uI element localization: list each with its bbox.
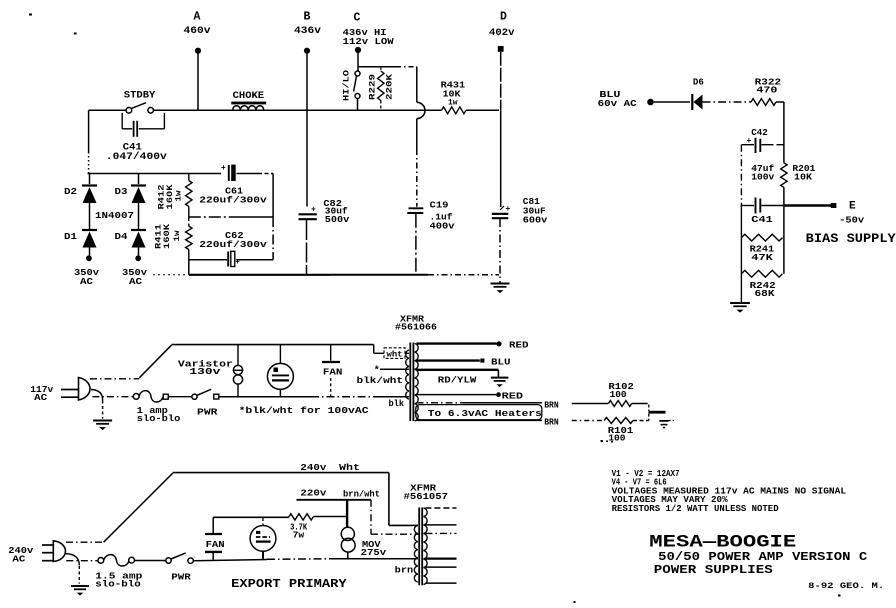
svg-text:AC: AC — [80, 277, 94, 287]
svg-text:68K: 68K — [755, 289, 776, 299]
240 top rail — [173, 472, 389, 474]
wire plug hot dash — [90, 378, 139, 380]
svg-text:402v: 402v — [489, 28, 515, 39]
wire middle cap line — [189, 216, 232, 218]
tap RD/YLW to ground — [417, 369, 499, 371]
svg-text:460v: 460v — [184, 26, 211, 37]
svg-text:10K: 10K — [794, 172, 813, 182]
bias right rail — [783, 102, 785, 163]
svg-text:wht: wht — [387, 350, 403, 360]
svg-text:FAN: FAN — [206, 539, 225, 550]
wire node A to rail — [197, 54, 199, 111]
svg-text:EXPORT PRIMARY: EXPORT PRIMARY — [231, 577, 347, 591]
svg-text:BLU: BLU — [491, 357, 511, 368]
capacitor C19 .1uf 400v — [409, 207, 424, 209]
svg-text:112v LOW: 112v LOW — [343, 37, 395, 47]
svg-text:D3: D3 — [115, 187, 128, 197]
switch PWR 240v — [135, 560, 166, 562]
line filter capacitor 240 (can) — [262, 518, 264, 526]
node D (square) — [498, 46, 504, 52]
wire to D6 — [654, 101, 690, 103]
svg-text:600v: 600v — [523, 216, 548, 226]
wire plug ground hook 240 — [65, 554, 79, 566]
tap BRN lower — [417, 419, 542, 421]
svg-text:160K: 160K — [162, 223, 172, 249]
node E (square) — [831, 203, 837, 208]
svg-text:RESISTORS 1/2 WATT UNLESS NOTE: RESISTORS 1/2 WATT UNLESS NOTED — [612, 504, 780, 514]
svg-text:1w: 1w — [173, 230, 182, 241]
switch PWR 117v — [168, 396, 192, 398]
scan specks — [29, 14, 32, 16]
wire BRN lower to R101 — [572, 420, 604, 422]
fan 240v — [212, 517, 214, 533]
wire BRN upper to R102 — [572, 403, 609, 405]
wire R322 to rail — [776, 101, 784, 103]
ground bias — [730, 302, 750, 304]
svg-text:D: D — [500, 11, 507, 24]
svg-text:1N4007: 1N4007 — [95, 211, 134, 221]
svg-text:BRN: BRN — [544, 400, 559, 410]
capacitor C82 30uf 500v — [299, 213, 317, 215]
resistor R411 160K 1w — [188, 217, 190, 226]
wire right cap rail — [272, 174, 274, 218]
svg-text:FAN: FAN — [323, 367, 343, 378]
resistor R412 160K 1w — [188, 174, 190, 181]
ground node D — [491, 283, 510, 285]
svg-text:100: 100 — [610, 390, 627, 400]
bottom ground rail — [153, 274, 187, 276]
wire plug neutral dash 240 — [66, 560, 98, 562]
plug 240v — [42, 544, 53, 546]
svg-text:MESA—BOOGIE: MESA—BOOGIE — [649, 532, 796, 552]
tap BRN upper — [417, 402, 463, 404]
svg-text:PWR: PWR — [171, 572, 191, 583]
heater CT bar — [649, 411, 666, 414]
middle top rail — [171, 344, 373, 346]
T2 secondary taps — [425, 507, 456, 509]
wire corner to wht tap — [388, 473, 390, 526]
resistor R101 100 — [604, 418, 633, 424]
svg-text:D1: D1 — [64, 232, 78, 242]
wire node D down — [500, 52, 502, 111]
svg-text:47K: 47K — [751, 253, 773, 263]
svg-text:C42: C42 — [751, 128, 768, 138]
fan 117v — [330, 345, 332, 361]
svg-text:C19: C19 — [430, 201, 449, 211]
svg-text:R229: R229 — [368, 74, 378, 100]
wire hop over rail at C19 column — [416, 67, 418, 103]
svg-text:.047/400v: .047/400v — [106, 151, 167, 163]
capacitor C81 30uF 600v — [492, 213, 509, 215]
resistor R201 10K — [781, 163, 787, 188]
resistor R241 47K — [741, 234, 782, 241]
svg-text:500v: 500v — [325, 215, 350, 225]
svg-text:220uf/300v: 220uf/300v — [199, 195, 267, 205]
wire wht tap — [373, 345, 375, 354]
resistor R229 220K — [380, 67, 382, 71]
wire plug hot dash 240 — [66, 541, 104, 543]
wire node C to switch — [357, 53, 359, 71]
resistor R242 68K — [741, 270, 782, 277]
ground 240v plug — [71, 585, 89, 587]
svg-text:C: C — [354, 12, 361, 25]
svg-text:C41: C41 — [751, 215, 773, 225]
node B — [304, 48, 310, 54]
svg-text:slo-blo: slo-blo — [95, 580, 141, 590]
svg-text:-50v: -50v — [839, 214, 864, 225]
svg-text:RED: RED — [509, 339, 529, 350]
svg-text:220uf/300v: 220uf/300v — [199, 240, 267, 250]
svg-text:A: A — [194, 11, 201, 24]
wire R411 to bottom rail — [188, 260, 190, 275]
wire plug ground hook — [91, 390, 103, 401]
svg-text:+: + — [506, 205, 511, 214]
wire diagonal 240 — [104, 473, 173, 542]
svg-text:BIAS SUPPLY: BIAS SUPPLY — [806, 232, 896, 246]
svg-text:HI/LO: HI/LO — [342, 70, 352, 101]
svg-text:AC: AC — [34, 393, 48, 403]
svg-text:436v: 436v — [294, 26, 321, 37]
svg-text:400v: 400v — [430, 222, 456, 232]
wire C branch to R229 and C19 column — [359, 66, 397, 68]
svg-text:1w: 1w — [448, 98, 458, 108]
ground 117v plug — [93, 420, 112, 422]
svg-text:blk/wht: blk/wht — [357, 376, 404, 386]
T2 core — [418, 508, 420, 586]
main B+ rail — [89, 109, 127, 111]
wire plug neutral dash — [92, 396, 133, 398]
svg-text:220K: 220K — [385, 73, 395, 100]
svg-text:130v: 130v — [189, 367, 221, 377]
svg-text:240v: 240v — [300, 462, 326, 473]
T1 secondary winding — [415, 344, 418, 421]
wire switch to rail — [357, 99, 359, 111]
resistor 3.7K 7w — [289, 514, 313, 520]
MOV 275v — [346, 500, 348, 527]
bottom wire 240 — [193, 560, 267, 561]
svg-text:7w: 7w — [293, 531, 305, 541]
svg-text:brn: brn — [395, 566, 414, 576]
svg-text:100v: 100v — [751, 172, 775, 182]
svg-text:RED: RED — [502, 390, 524, 401]
wire E output — [784, 204, 831, 206]
capacitor C41 standby bypass — [121, 113, 123, 129]
svg-text:220v: 220v — [300, 488, 326, 499]
wire diagonal to top rail — [139, 345, 171, 378]
wire PWR to transformer — [219, 396, 311, 398]
svg-text:*blk/wht for 100vAC: *blk/wht for 100vAC — [239, 406, 370, 416]
plug 117v — [61, 389, 79, 391]
tap RED plate — [417, 342, 497, 344]
220v tap wire — [297, 499, 372, 501]
svg-text:AC: AC — [12, 555, 26, 565]
T2 secondary winding — [424, 508, 428, 585]
svg-text:60v AC: 60v AC — [598, 99, 638, 109]
svg-text:E: E — [849, 201, 856, 213]
svg-text:To 6.3vAC Heaters: To 6.3vAC Heaters — [428, 409, 542, 419]
wire down to heater CT — [648, 405, 650, 412]
T1 core — [409, 343, 411, 422]
svg-text:POWER SUPPLIES: POWER SUPPLIES — [654, 564, 773, 577]
svg-text:160K: 160K — [165, 183, 175, 209]
node BLU — [647, 99, 654, 106]
wire to bias ground — [740, 274, 742, 303]
svg-text:RD/YLW: RD/YLW — [438, 375, 477, 385]
svg-text:275v: 275v — [361, 547, 387, 558]
svg-text:STDBY: STDBY — [124, 91, 156, 102]
tap RED bottom — [417, 394, 497, 396]
svg-text:D2: D2 — [64, 187, 77, 197]
svg-text:470: 470 — [756, 86, 777, 96]
T2 primary winding — [414, 525, 417, 582]
svg-text:50/50 POWER AMP VERSION C: 50/50 POWER AMP VERSION C — [658, 551, 867, 564]
wire rectifier top line — [88, 173, 222, 175]
svg-text:PWR: PWR — [197, 407, 218, 418]
wire node B down — [306, 54, 308, 207]
sub rail 240 — [213, 516, 289, 518]
svg-text:+: + — [311, 206, 316, 215]
ground RD/YLW — [491, 377, 509, 379]
node 350v AC right — [135, 255, 141, 261]
bias left rail — [740, 145, 742, 206]
svg-text:blk: blk — [389, 399, 405, 409]
T1 primary winding — [406, 350, 409, 399]
fuse 1 amp slo-blo — [133, 394, 139, 400]
heaters box — [416, 405, 542, 420]
svg-text:D4: D4 — [115, 232, 129, 242]
svg-text:8-92 GEO. M.: 8-92 GEO. M. — [808, 581, 884, 591]
fuse 1.5 amp slo-blo — [98, 558, 104, 564]
svg-text:slo-blo: slo-blo — [137, 414, 181, 424]
svg-text:B: B — [304, 11, 311, 24]
node C — [355, 47, 361, 53]
capacitor C41 bias — [755, 198, 757, 214]
svg-text:+: + — [221, 164, 226, 173]
svg-text:BRN: BRN — [544, 417, 559, 427]
svg-text:#561057: #561057 — [404, 492, 449, 502]
svg-text:#561066: #561066 — [395, 323, 437, 333]
wire D6 to R322 — [703, 101, 752, 103]
svg-text:D6: D6 — [693, 78, 704, 88]
svg-text:CHOKE: CHOKE — [233, 91, 265, 102]
svg-text:100: 100 — [608, 433, 625, 443]
node A — [195, 48, 201, 54]
svg-text:Wht: Wht — [339, 462, 360, 473]
svg-text:1w: 1w — [175, 190, 184, 201]
ground heater CT — [659, 420, 668, 422]
svg-text:brn/wht: brn/wht — [343, 489, 380, 500]
tap BLU — [417, 359, 480, 361]
switch HI/LO — [355, 71, 360, 76]
svg-text:AC: AC — [129, 277, 143, 287]
wire left column — [88, 110, 90, 152]
line filter capacitor (can) — [279, 345, 281, 364]
node 350v AC left — [86, 255, 92, 261]
